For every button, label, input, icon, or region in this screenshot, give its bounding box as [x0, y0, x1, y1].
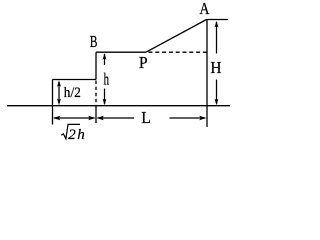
small step left edge with extension tick: [52, 80, 54, 125]
h/2 down arrowhead: [57, 99, 61, 106]
h/2 up arrowhead: [57, 80, 61, 87]
h up arrowhead: [103, 53, 107, 60]
svg-text:h/2: h/2: [64, 86, 81, 102]
extension tick below ground at x=96: [95, 106, 97, 123]
L dimension right segment: [170, 117, 206, 119]
sqrt2h dimension line: [54, 117, 95, 119]
H up arrowhead: [215, 21, 219, 28]
incline P to A: [146, 20, 207, 53]
svg-text:h: h: [104, 72, 109, 90]
dashed vertical below step edge at x=96: [95, 81, 97, 106]
svg-text:L: L: [141, 110, 151, 127]
h dimension lower shaft: [104, 89, 106, 105]
dashed horizontal from P to below A: [149, 51, 208, 53]
h dimension upper shaft: [104, 54, 106, 65]
ground line: [7, 105, 230, 107]
sqrt2h left arrowhead: [53, 116, 60, 120]
svg-text:A: A: [199, 0, 209, 18]
svg-text:P: P: [139, 55, 148, 72]
tall step top surface B to P: [96, 51, 146, 53]
H down arrowhead: [215, 99, 219, 106]
top plateau at A: [207, 19, 229, 21]
L left arrowhead: [97, 116, 104, 120]
H dimension upper shaft: [216, 22, 218, 54]
h down arrowhead: [103, 99, 107, 106]
L dimension left segment: [98, 117, 135, 119]
svg-text:H: H: [210, 60, 222, 78]
H dimension lower shaft: [216, 80, 218, 105]
svg-text:B: B: [90, 33, 98, 52]
sqrt2h right arrowhead: [88, 116, 95, 120]
vertical cliff edge below A with extension tick: [206, 20, 208, 128]
small step top surface: [53, 79, 97, 81]
L right arrowhead: [199, 116, 206, 120]
h/2 dimension arrow shaft: [58, 82, 60, 103]
tall step left edge: [95, 52, 97, 79]
sqrt radical sign of sqrt(2)h label: [61, 124, 80, 138]
svg-text:2h: 2h: [68, 127, 85, 143]
